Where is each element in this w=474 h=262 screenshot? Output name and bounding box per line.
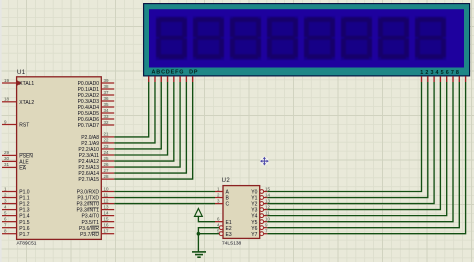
display digit 7 (dim 8.) [378,17,409,61]
wire U1 P2.7 (pin 28) to display segment pin DP [114,82,192,179]
display digit 4 (dim 8.) [267,17,298,61]
decoder U2 74LS138 [215,178,271,246]
svg-text:27: 27 [104,168,110,173]
svg-text:32: 32 [104,120,110,125]
svg-text:14: 14 [104,210,110,215]
U1 pin 10 P3.0 stub [101,191,114,193]
svg-text:34: 34 [104,108,110,113]
U1 pin 5 P1.4 stub [2,215,17,217]
U1 pin 14 P3.4 stub [101,215,114,217]
U1 pin 15 P3.5 stub [101,221,114,223]
U1 pin 35 P0.4 stub [101,106,114,108]
svg-text:35: 35 [104,102,110,107]
U1 pin 9 RST stub [2,124,17,126]
svg-text:12: 12 [265,204,271,209]
U1 pin 38 P0.1 stub [101,88,114,90]
display pin segment G [185,76,187,82]
U2 pin 7 Y7 bubble and stub [260,232,264,236]
U1 pin 2 P1.1 stub [2,197,17,199]
U2 pin 6 E1 stub [215,221,223,223]
power symbol VCC arrow [195,209,203,217]
svg-text:11: 11 [104,192,109,197]
U1 pin 34 P0.5 stub [101,112,114,114]
wire U1 P2.6 (pin 27) to display segment pin G [114,82,186,173]
svg-text:ABCDEFG DP: ABCDEFG DP [152,70,198,76]
U1 pin 1 P1.0 stub [2,191,17,193]
U1 pin 21 P2.0 stub [101,136,114,138]
svg-text:Y7: Y7 [251,232,257,238]
svg-text:10: 10 [104,186,110,191]
U2 pin 3 C stub [215,203,223,205]
U1 pin 31 EA stub [2,166,17,168]
wire U2 Y5 to display digit-select pin 6 [267,82,453,222]
U1 pin 13 P3.3 stub [101,209,114,211]
U1 pin 11 P3.1 stub [101,197,114,199]
display pin segment C [160,76,162,82]
svg-text:AT89C51: AT89C51 [17,240,37,246]
display pin segment E [173,76,175,82]
display pin digit 4 [439,76,441,82]
wire power arrow to U2 E1 (pin 6) [198,216,215,221]
svg-text:19: 19 [4,78,10,83]
U1 pin 7 P1.6 stub [2,227,17,229]
svg-text:26: 26 [104,162,110,167]
U1 pin 19 XTAL1 stub [2,82,17,84]
wire U1 P2.1 (pin 22) to display segment pin B [114,82,155,143]
wire ground net to U2 E2 (pin 4) [198,228,219,252]
svg-text:21: 21 [104,132,110,137]
wire U1 P2.4 (pin 25) to display segment pin E [114,82,174,161]
display pin segment A [148,76,150,82]
U2 pin 9 Y6 bubble and stub [260,226,264,230]
svg-text:17: 17 [104,229,110,234]
display pin digit 7 [458,76,460,82]
ground symbol [192,252,206,257]
svg-text:P0.7/AD7: P0.7/AD7 [78,123,100,129]
svg-text:XTAL1: XTAL1 [19,81,34,87]
junction node E2/E3/ground [197,232,201,236]
svg-text:EA: EA [19,166,26,172]
svg-text:16: 16 [104,222,110,227]
display pin digit 1 [421,76,423,82]
wire U2 Y0 to display digit-select pin 1 [267,82,421,192]
wire U1 P3.0/RXD (pin 10) to U2 A (pin 1) [114,191,215,193]
svg-text:U1: U1 [17,70,26,76]
U2 pin 12 Y3 bubble and stub [260,208,264,212]
svg-text:24: 24 [104,150,110,155]
svg-text:12: 12 [104,198,110,203]
wire U2 Y1 to display digit-select pin 2 [267,82,428,198]
svg-text:14: 14 [265,192,271,197]
svg-text:18: 18 [4,97,10,102]
svg-text:33: 33 [104,114,110,119]
svg-text:36: 36 [104,96,110,101]
U1 pin 26 P2.5 stub [101,166,114,168]
display digit 5 (dim 8.) [304,17,335,61]
U1 pin 23 P2.2 stub [101,148,114,150]
wire U2 Y6 to display digit-select pin 7 [267,82,459,228]
U1 XTAL1 clock arrow [17,80,22,86]
U1 pin 25 P2.4 stub [101,160,114,162]
U1 pin 33 P0.6 stub [101,118,114,120]
U1 pin 36 P0.3 stub [101,100,114,102]
wire U1 P2.5 (pin 26) to display segment pin F [114,82,180,167]
U1 pin 4 P1.3 stub [2,209,17,211]
U1 pin 39 P0.0 stub [101,82,114,84]
7-segment multiplexed display DS1 [144,4,470,82]
U2 pin 11 Y4 bubble and stub [260,214,264,218]
U1 pin 28 P2.7 stub [101,178,114,180]
U1 pin 16 P3.6 stub [101,227,114,229]
display pin segment DP [192,76,194,82]
svg-text:P1.7: P1.7 [19,232,30,238]
display pin digit 8 [465,76,467,82]
display pin segment D [167,76,169,82]
U1 pin 29 PSEN stub [2,154,17,156]
svg-text:P3.7/RD: P3.7/RD [80,232,99,238]
U2 pin 13 Y2 bubble and stub [260,202,264,206]
svg-text:37: 37 [104,90,110,95]
U2 pin 4 E2 bubble [219,226,223,230]
svg-text:15: 15 [265,186,271,191]
U1 pin 37 P0.2 stub [101,94,114,96]
svg-text:11: 11 [265,210,270,215]
svg-text:29: 29 [4,150,10,155]
display pin segment B [154,76,156,82]
wire U2 Y3 to display digit-select pin 4 [267,82,440,210]
display pin digit 3 [433,76,435,82]
svg-text:30: 30 [4,156,10,161]
U1 pin 24 P2.3 stub [101,154,114,156]
display pin digit 2 [427,76,429,82]
svg-text:39: 39 [104,78,110,83]
wire U1 P2.0 (pin 21) to display segment pin A [114,82,149,137]
svg-text:C: C [226,202,230,208]
display digit 3 (dim 8.) [230,17,261,61]
wire U1 P3.1/TXD (pin 11) to U2 B (pin 2) [114,197,215,199]
wire U1 P2.2 (pin 23) to display segment pin C [114,82,161,149]
display digit 1 (dim 8.) [156,17,187,61]
svg-text:13: 13 [265,198,271,203]
svg-text:15: 15 [104,216,110,221]
U1 pin 12 P3.2 stub [101,203,114,205]
U1 pin 32 P0.7 stub [101,124,114,126]
svg-text:P2.7/A15: P2.7/A15 [78,177,99,183]
U1 pin 22 P2.1 stub [101,142,114,144]
svg-text:23: 23 [104,144,110,149]
svg-text:74LS138: 74LS138 [222,240,242,246]
wire U2 Y4 to display digit-select pin 5 [267,82,446,216]
U1 pin 6 P1.5 stub [2,221,17,223]
wire U1 P3.2/INT0 (pin 12) to U2 C (pin 3) [114,203,215,205]
svg-text:10: 10 [265,216,271,221]
U1 pin 17 P3.7 stub [101,233,114,235]
U2 pin 14 Y1 bubble and stub [260,196,264,200]
svg-text:25: 25 [104,156,110,161]
svg-text:22: 22 [104,138,110,143]
display digit 2 (dim 8.) [193,17,224,61]
display digit 8 (dim 8.) [415,17,446,61]
move cursor marker [260,157,269,166]
display pin digit 6 [452,76,454,82]
display pin digit 5 [446,76,448,82]
U1 pin 30 ALE stub [2,160,17,162]
svg-text:RST: RST [19,123,29,129]
microcontroller U1 AT89C51 [2,70,114,247]
U2 pin 15 Y0 bubble and stub [260,190,264,194]
U1 pin 8 P1.7 stub [2,233,17,235]
wire U2 Y2 to display digit-select pin 3 [267,82,434,204]
svg-text:E3: E3 [226,232,232,238]
U1 pin 3 P1.2 stub [2,203,17,205]
display digit 6 (dim 8.) [341,17,372,61]
svg-text:XTAL2: XTAL2 [19,100,34,106]
svg-text:31: 31 [4,162,10,167]
svg-text:38: 38 [104,84,110,89]
U2 pin 2 B stub [215,197,223,199]
U2 pin 1 A stub [215,191,223,193]
display pin segment F [179,76,181,82]
U2 pin 5 E3 bubble [219,232,223,236]
wire U2 Y7 to display digit-select pin 8 [267,82,465,234]
svg-text:U2: U2 [222,178,231,184]
U2 pin 10 Y5 bubble and stub [260,220,264,224]
wire U1 P2.3 (pin 24) to display segment pin D [114,82,167,155]
wire U2 E3 (pin 5) to ground net [198,233,219,235]
U1 pin 27 P2.6 stub [101,172,114,174]
svg-text:28: 28 [104,174,110,179]
svg-text:13: 13 [104,204,110,209]
U1 pin 18 XTAL2 stub [2,101,17,103]
